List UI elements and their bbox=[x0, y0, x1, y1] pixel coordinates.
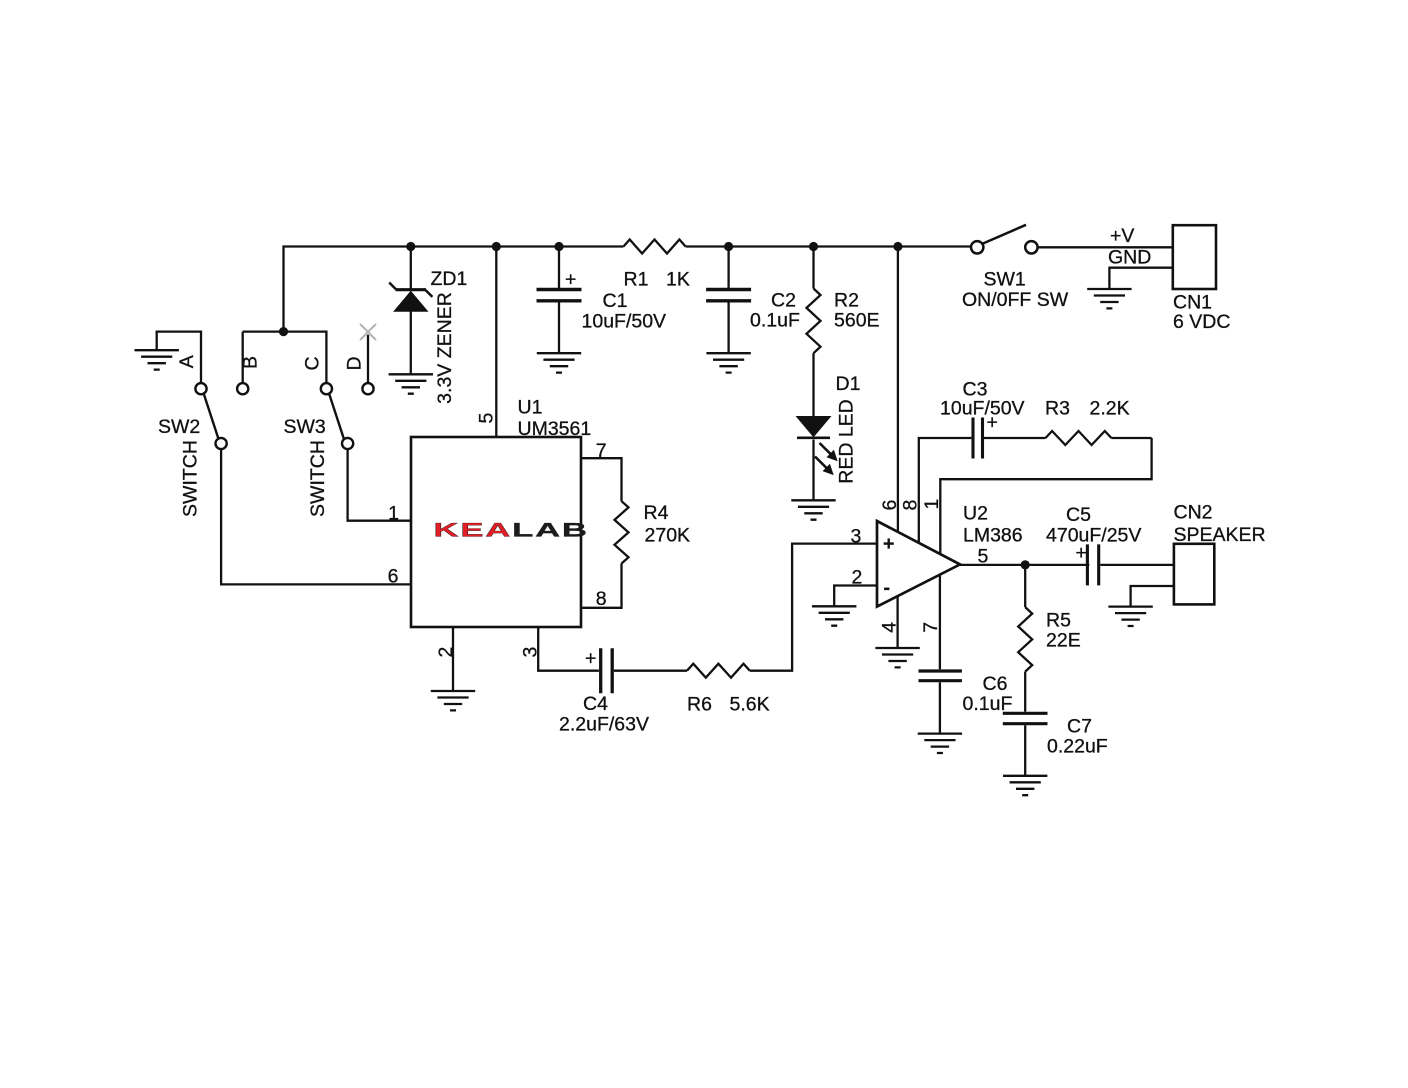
node: SW2 pole bbox=[216, 438, 227, 449]
node: rail-R2 junction bbox=[809, 242, 818, 251]
node: terminal A bbox=[195, 383, 206, 394]
capacitor C4 bbox=[585, 648, 612, 694]
svg-text:C1: C1 bbox=[603, 290, 628, 312]
wire: ground to terminal A bbox=[157, 332, 201, 383]
svg-text:C6: C6 bbox=[983, 673, 1008, 695]
ground (C2) bbox=[706, 353, 750, 372]
svg-text:6 VDC: 6 VDC bbox=[1173, 311, 1230, 333]
svg-text:6: 6 bbox=[388, 566, 399, 588]
switch SW1 bbox=[971, 225, 1038, 254]
switch SW3 lever bbox=[329, 394, 344, 439]
svg-text:0.22uF: 0.22uF bbox=[1047, 736, 1108, 758]
svg-text:R5: R5 bbox=[1046, 610, 1071, 632]
wire: U2 pin 2 to ground bbox=[834, 586, 877, 607]
resistor R2 bbox=[807, 247, 821, 417]
svg-text:C2: C2 bbox=[771, 290, 796, 312]
svg-text:A: A bbox=[176, 355, 198, 368]
svg-text:B: B bbox=[240, 356, 262, 369]
svg-text:D: D bbox=[344, 356, 366, 370]
wire: U2 output pin 5 bbox=[960, 564, 1089, 566]
node: rail-U1 pin5 junction bbox=[492, 242, 501, 251]
wire: U1 pin 5 to rail bbox=[495, 247, 497, 438]
svg-text:SWITCH: SWITCH bbox=[180, 440, 202, 517]
svg-text:1K: 1K bbox=[666, 269, 690, 291]
wire: C7 to ground bbox=[1024, 725, 1026, 776]
ground (terminal A) bbox=[135, 350, 179, 369]
switch SW2 lever bbox=[204, 394, 219, 439]
svg-text:5.6K: 5.6K bbox=[730, 694, 770, 716]
wire: U2 pin 1 bbox=[940, 438, 1151, 553]
node: rail-ZD1 junction bbox=[406, 242, 415, 251]
svg-text:C: C bbox=[302, 356, 324, 370]
wire: SW1 to CN1 +V pin bbox=[1038, 246, 1173, 248]
svg-text:CN2: CN2 bbox=[1174, 502, 1213, 524]
svg-text:KEALAB: KEALAB bbox=[434, 519, 589, 540]
svg-text:UM3561: UM3561 bbox=[518, 418, 592, 440]
svg-text:C7: C7 bbox=[1067, 716, 1092, 738]
svg-text:0.1uF: 0.1uF bbox=[750, 310, 800, 332]
wire: C5 to CN2 bbox=[1100, 564, 1174, 566]
IC U1 UM3561 body bbox=[411, 437, 581, 627]
svg-text:SWITCH: SWITCH bbox=[307, 440, 329, 517]
svg-text:R1: R1 bbox=[624, 269, 649, 291]
svg-text:560E: 560E bbox=[834, 310, 880, 332]
wire: R3 right bbox=[1111, 437, 1151, 439]
svg-text:R2: R2 bbox=[834, 290, 859, 312]
capacitor C7 bbox=[1003, 713, 1048, 723]
svg-text:+: + bbox=[565, 269, 576, 291]
ground (CN2) bbox=[1108, 607, 1152, 626]
op-amp U2 LM386 bbox=[877, 521, 960, 607]
capacitor C5 bbox=[1076, 542, 1099, 585]
svg-text:3: 3 bbox=[520, 647, 542, 658]
svg-text:ON/0FF SW: ON/0FF SW bbox=[962, 289, 1069, 311]
wire: U2 pin 7 to C6 bbox=[939, 575, 941, 669]
svg-text:D1: D1 bbox=[836, 373, 861, 395]
svg-text:1: 1 bbox=[388, 503, 399, 525]
connector CN2 bbox=[1174, 544, 1214, 605]
connector CN1 bbox=[1173, 225, 1216, 289]
ground (C7) bbox=[1003, 776, 1047, 795]
wire: C3 to R3 bbox=[984, 437, 1046, 439]
wire: CN1 GND pin bbox=[1109, 268, 1172, 289]
svg-text:0.1uF: 0.1uF bbox=[963, 693, 1013, 715]
svg-text:R3: R3 bbox=[1045, 398, 1070, 420]
ground (U2 pin4) bbox=[875, 648, 919, 667]
resistor R1 bbox=[624, 240, 686, 254]
wire: terminal B to rail junction to terminal C bbox=[243, 332, 327, 384]
wire: top power rail left segment (corner to R1 left) bbox=[284, 247, 624, 332]
wire: rail to U2 pin 6 bbox=[897, 247, 899, 532]
svg-text:LM386: LM386 bbox=[963, 525, 1023, 547]
wire: SW3 pole to U1 pin 1 bbox=[348, 449, 411, 521]
svg-text:4: 4 bbox=[879, 622, 901, 633]
wire: terminal D stub bbox=[367, 335, 369, 383]
node: output junction bbox=[1021, 560, 1030, 569]
svg-text:C4: C4 bbox=[583, 693, 608, 715]
wire: R6 to U2 pin 3 bbox=[750, 544, 877, 671]
svg-text:U1: U1 bbox=[518, 397, 543, 419]
wire: C6 to ground bbox=[939, 682, 941, 733]
node: terminal C bbox=[321, 383, 332, 394]
wire: U1 pin 3 to C4 bbox=[538, 627, 599, 671]
capacitor C2 bbox=[706, 247, 751, 354]
svg-text:470uF/25V: 470uF/25V bbox=[1046, 525, 1141, 547]
svg-text:R6: R6 bbox=[687, 694, 712, 716]
svg-text:SW2: SW2 bbox=[158, 416, 200, 438]
node: terminal B bbox=[237, 383, 248, 394]
svg-text:270K: 270K bbox=[645, 525, 691, 547]
svg-text:2.2uF/63V: 2.2uF/63V bbox=[559, 714, 649, 736]
wire: U1 pin 2 bbox=[452, 627, 454, 691]
svg-text:RED LED: RED LED bbox=[836, 399, 858, 484]
wire: SW2 pole to U1 pin 6 bbox=[221, 449, 411, 584]
resistor R4 bbox=[581, 458, 629, 608]
svg-text:C5: C5 bbox=[1066, 504, 1091, 526]
node: rail-C1 junction bbox=[554, 242, 563, 251]
wire: U2 pin 4 bbox=[896, 596, 898, 648]
svg-text:2.2K: 2.2K bbox=[1090, 398, 1130, 420]
svg-text:7: 7 bbox=[596, 440, 607, 462]
svg-text:ZD1: ZD1 bbox=[431, 268, 468, 290]
node: B/C junction bbox=[279, 327, 288, 336]
node: rail-C2 junction bbox=[724, 242, 733, 251]
svg-text:-: - bbox=[884, 577, 891, 599]
wire: C4 to R6 bbox=[614, 670, 687, 672]
svg-text:22E: 22E bbox=[1046, 630, 1081, 652]
svg-text:+: + bbox=[883, 533, 894, 555]
ground (CN1) bbox=[1087, 289, 1131, 308]
zener diode ZD1 bbox=[389, 247, 432, 375]
ground (C1) bbox=[537, 353, 581, 372]
ground (ZD1) bbox=[389, 374, 433, 393]
capacitor C3 bbox=[973, 412, 998, 459]
wire: top power rail right segment (R1 right to SW1) bbox=[686, 245, 971, 247]
resistor R6 bbox=[687, 664, 750, 678]
capacitor C6 bbox=[919, 671, 962, 681]
node: rail-U2 pin6 junction bbox=[893, 242, 902, 251]
svg-text:SPEAKER: SPEAKER bbox=[1174, 524, 1266, 546]
resistor R3 bbox=[1046, 431, 1112, 445]
node: SW3 pole bbox=[342, 438, 353, 449]
svg-text:R4: R4 bbox=[644, 502, 669, 524]
ground (U2 pin2) bbox=[812, 606, 856, 625]
svg-text:6: 6 bbox=[879, 500, 901, 511]
ground (D1) bbox=[791, 500, 835, 519]
svg-text:+: + bbox=[585, 648, 596, 670]
svg-text:10uF/50V: 10uF/50V bbox=[582, 311, 667, 333]
svg-text:3.3V ZENER: 3.3V ZENER bbox=[434, 292, 456, 404]
svg-text:8: 8 bbox=[900, 500, 922, 511]
svg-text:5: 5 bbox=[476, 412, 498, 423]
svg-text:8: 8 bbox=[596, 588, 607, 610]
no-connect X (terminal D) bbox=[360, 324, 376, 340]
wire: CN2 bottom pin to ground bbox=[1131, 586, 1174, 607]
svg-text:+V: +V bbox=[1110, 225, 1134, 247]
svg-text:7: 7 bbox=[920, 622, 942, 633]
svg-text:1: 1 bbox=[921, 499, 943, 510]
svg-text:10uF/50V: 10uF/50V bbox=[940, 398, 1025, 420]
ground (C6) bbox=[918, 734, 962, 753]
svg-text:GND: GND bbox=[1108, 247, 1151, 269]
ground (U1 pin2) bbox=[431, 691, 475, 710]
svg-text:SW3: SW3 bbox=[284, 416, 326, 438]
svg-text:U2: U2 bbox=[963, 503, 988, 525]
svg-text:SW1: SW1 bbox=[984, 269, 1026, 291]
svg-text:3: 3 bbox=[851, 526, 862, 548]
node: terminal D bbox=[362, 383, 373, 394]
svg-text:5: 5 bbox=[978, 546, 989, 568]
capacitor C1 bbox=[537, 247, 582, 354]
svg-text:2: 2 bbox=[435, 647, 457, 658]
LED D1 bbox=[797, 417, 837, 501]
resistor R5 bbox=[1018, 565, 1032, 712]
wire: U2 pin 8 to C3 bbox=[919, 438, 972, 542]
